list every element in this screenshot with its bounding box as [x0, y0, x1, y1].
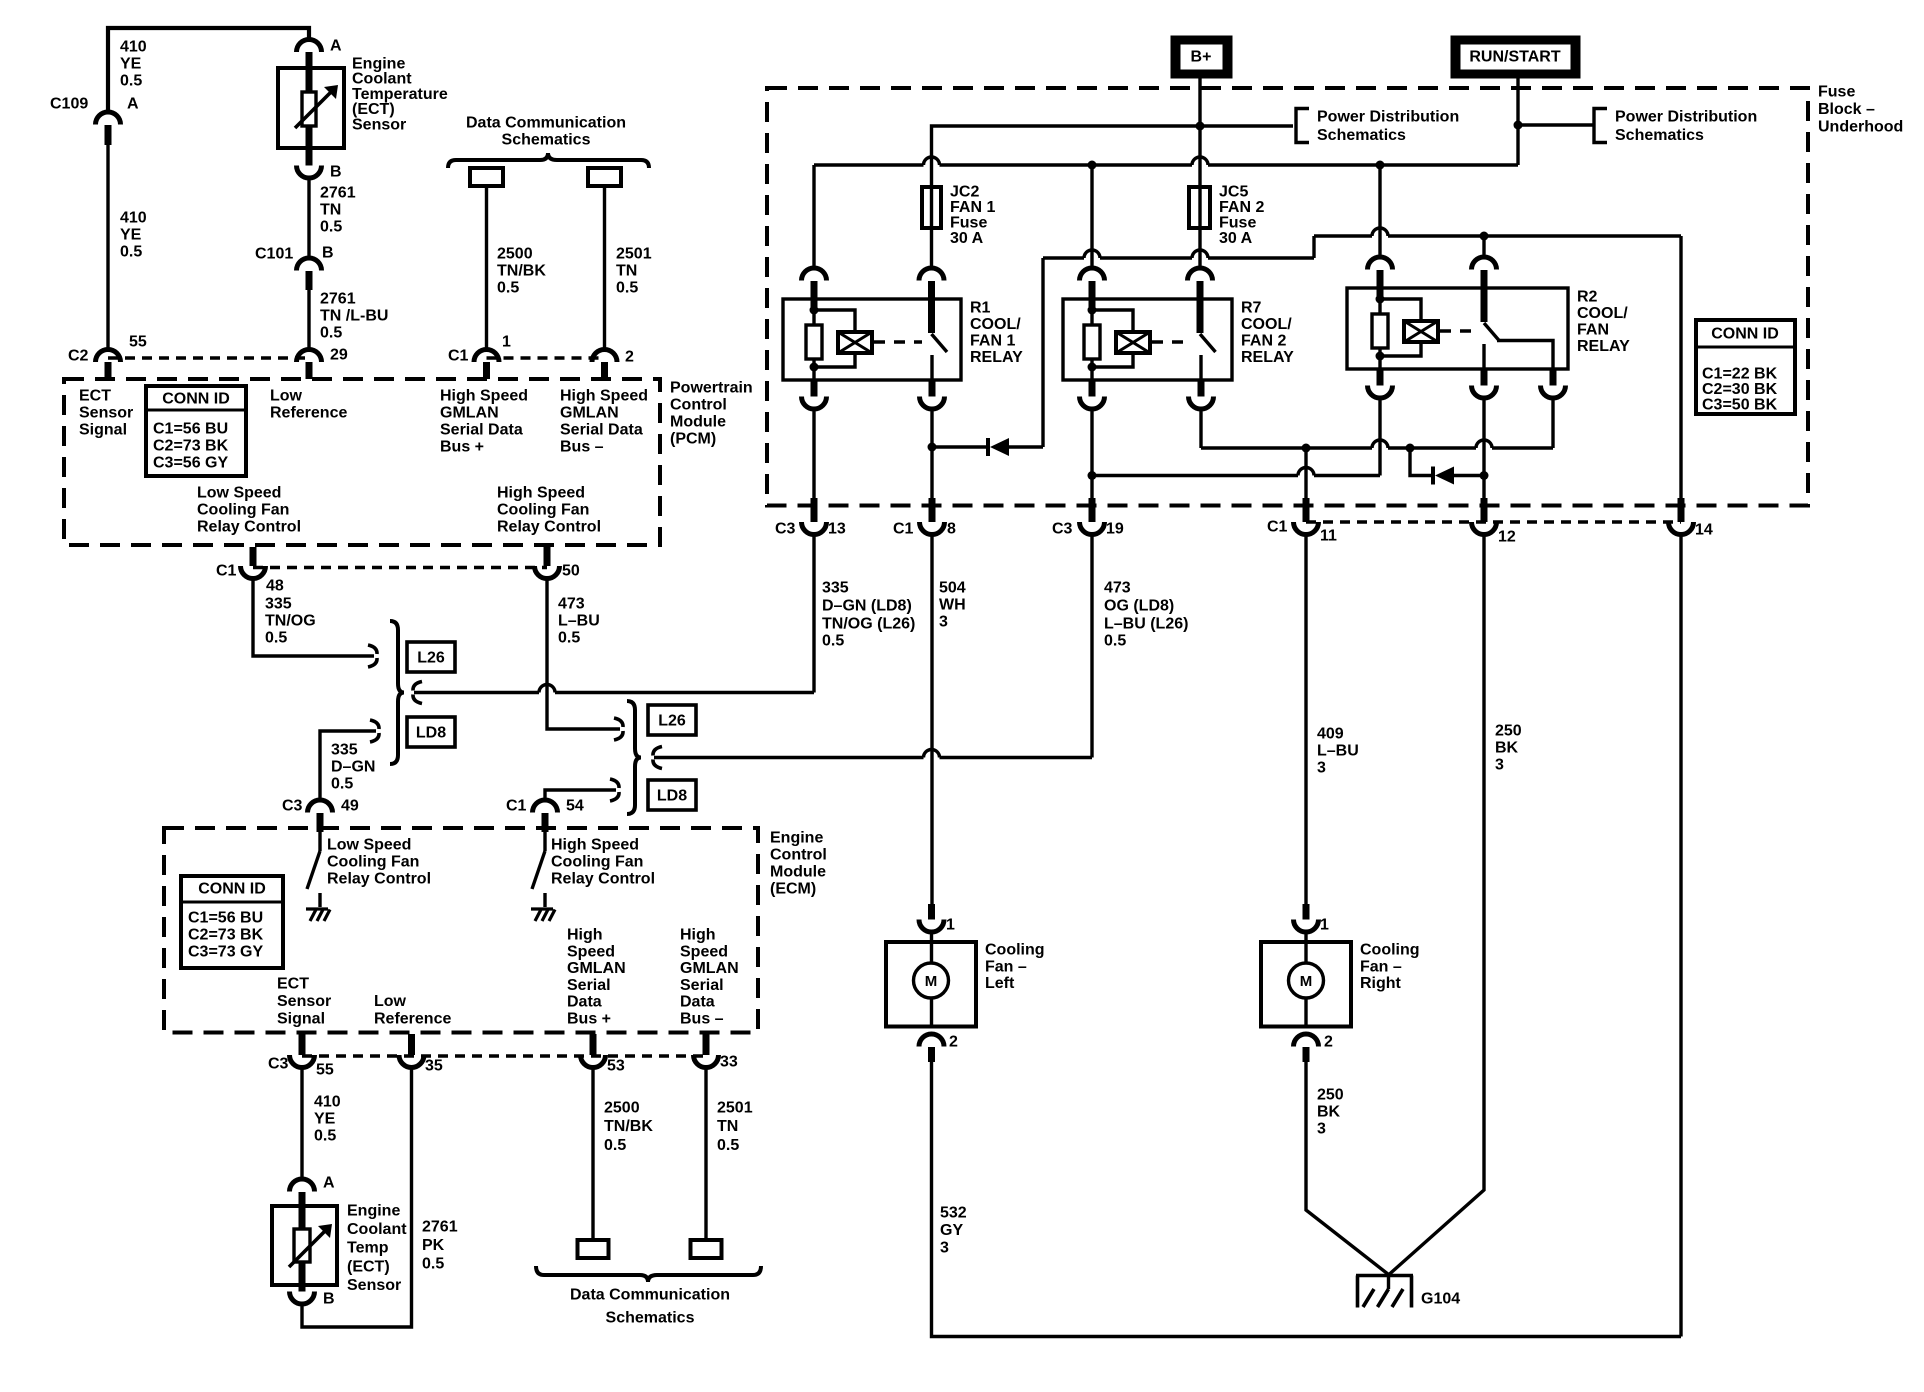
connector ECM pin 53	[590, 1034, 597, 1055]
wire: 2500 TN/BK serial data bus +	[485, 186, 488, 350]
svg-text:Bus +: Bus +	[567, 1011, 611, 1028]
svg-text:3: 3	[1317, 760, 1326, 777]
svg-text:30 A: 30 A	[950, 230, 984, 247]
wire: R7 coil feed drop	[1090, 165, 1093, 268]
svg-text:55: 55	[316, 1062, 334, 1079]
wire: 410 YE C109 to PCM C2-55	[106, 145, 109, 350]
CONN ID table (fuse block)	[1696, 320, 1795, 414]
svg-text:(ECM): (ECM)	[770, 881, 816, 898]
svg-text:C3=50 BK: C3=50 BK	[1702, 397, 1778, 414]
svg-text:19: 19	[1106, 521, 1124, 538]
svg-text:8: 8	[947, 521, 956, 538]
wire: cross wire drop to pin 14	[1679, 236, 1682, 498]
svg-text:Coolant: Coolant	[347, 1221, 407, 1238]
wire: R7 coil output to pin 19	[1090, 409, 1093, 498]
svg-text:High Speed: High Speed	[551, 837, 639, 854]
svg-text:410: 410	[120, 210, 147, 227]
svg-text:Reference: Reference	[374, 1011, 451, 1028]
svg-text:Powertrain: Powertrain	[670, 380, 753, 397]
svg-text:Signal: Signal	[79, 422, 127, 439]
connector PCM pin 50	[544, 547, 551, 566]
svg-text:FAN 1: FAN 1	[950, 199, 995, 216]
svg-text:Cooling: Cooling	[1360, 942, 1420, 959]
svg-text:2: 2	[1324, 1034, 1333, 1051]
svg-text:C3: C3	[1052, 521, 1073, 538]
harness connector line pins 1-2 (dotted)	[487, 356, 605, 360]
svg-text:0.5: 0.5	[320, 219, 342, 236]
splice L26 tag (left)	[407, 642, 455, 672]
node: pin 11 tap	[1302, 444, 1311, 453]
relay R2 switch throw to second output	[1497, 341, 1553, 370]
svg-text:Module: Module	[770, 864, 826, 881]
svg-text:0.5: 0.5	[616, 280, 638, 297]
connector: R7 coil output pin	[1090, 369, 1093, 380]
svg-text:11: 11	[1320, 528, 1337, 545]
wire: splice output to fuse block pin 13 (hops 473 wire)	[414, 691, 539, 694]
svg-text:B: B	[330, 164, 342, 181]
connector ECM pin 35	[408, 1034, 415, 1055]
svg-text:C3: C3	[282, 798, 303, 815]
svg-text:50: 50	[562, 563, 580, 580]
svg-text:TN: TN	[616, 263, 637, 280]
node: diode D2 tap	[1406, 444, 1415, 453]
svg-text:Speed: Speed	[567, 943, 615, 960]
svg-text:Fuse: Fuse	[1219, 215, 1256, 232]
svg-text:409: 409	[1317, 726, 1344, 743]
connector ECT sensor (upper) pin B	[297, 166, 322, 179]
svg-text:410: 410	[314, 1094, 341, 1111]
CONN ID table (PCM)	[146, 386, 246, 476]
svg-text:B: B	[323, 1291, 335, 1308]
svg-text:A: A	[323, 1175, 335, 1192]
svg-text:1: 1	[946, 917, 955, 934]
svg-text:JC5: JC5	[1219, 184, 1248, 201]
svg-text:C1: C1	[506, 798, 527, 815]
svg-text:Speed: Speed	[680, 943, 728, 960]
svg-text:504: 504	[939, 580, 966, 597]
svg-text:High Speed: High Speed	[440, 388, 528, 405]
svg-text:0.5: 0.5	[497, 280, 519, 297]
connector ECM C3 pin 55	[299, 1034, 306, 1055]
connector PCM C1 pin 48	[250, 547, 257, 566]
svg-text:RELAY: RELAY	[970, 349, 1023, 366]
svg-text:LD8: LD8	[416, 725, 446, 742]
connector: R7 switch feed pin	[1188, 268, 1213, 281]
relay R7 coil-switch dashed link	[1152, 340, 1191, 343]
svg-text:(PCM): (PCM)	[670, 431, 716, 448]
svg-text:3: 3	[939, 614, 948, 631]
svg-text:C1: C1	[216, 563, 237, 580]
relay R1 coil winding	[814, 310, 855, 332]
svg-text:Sensor: Sensor	[347, 1277, 401, 1294]
svg-text:3: 3	[940, 1240, 949, 1257]
svg-text:Serial: Serial	[567, 977, 611, 994]
connector: left fan pin 2	[919, 1034, 944, 1047]
svg-text:L26: L26	[417, 650, 445, 667]
wire: ignition bus down to R1 coil	[812, 165, 815, 268]
svg-text:14: 14	[1695, 522, 1713, 539]
connector: R1 switch feed pin	[919, 268, 944, 281]
svg-text:OG (LD8): OG (LD8)	[1104, 598, 1174, 615]
off-page terminal for circuit 2500	[470, 168, 503, 186]
svg-text:Low Speed: Low Speed	[197, 485, 281, 502]
fuse JC5 FAN 2 30 A	[1189, 187, 1210, 228]
svg-text:FAN 2: FAN 2	[1241, 333, 1286, 350]
svg-text:High: High	[680, 927, 716, 944]
svg-text:B+: B+	[1191, 49, 1212, 66]
svg-text:2501: 2501	[616, 246, 652, 263]
svg-text:2500: 2500	[604, 1100, 640, 1117]
wire: 409 L-BU pin 11 to right fan	[1304, 536, 1307, 905]
svg-text:33: 33	[720, 1054, 738, 1071]
svg-text:532: 532	[940, 1205, 967, 1222]
svg-text:335: 335	[331, 742, 358, 759]
svg-text:Fuse: Fuse	[1818, 84, 1855, 101]
svg-text:D–GN (LD8): D–GN (LD8)	[822, 598, 912, 615]
svg-text:Bus –: Bus –	[680, 1011, 724, 1028]
relay R1 COOL/FAN 1 box	[783, 299, 961, 380]
connector ECT sensor (lower) pin A	[290, 1179, 315, 1192]
harness connector line ECM pins (dotted)	[302, 1054, 706, 1058]
svg-text:2761: 2761	[422, 1219, 458, 1236]
svg-text:TN/OG (L26): TN/OG (L26)	[822, 616, 915, 633]
svg-text:PK: PK	[422, 1237, 445, 1254]
connector: R2 switch feed pin	[1472, 257, 1497, 270]
connector fuse block pin 14	[1678, 498, 1685, 522]
connector PCM C1 pin 1	[474, 350, 499, 363]
node: B+ tap on power bus	[1196, 122, 1205, 131]
svg-text:Relay Control: Relay Control	[327, 871, 431, 888]
svg-text:GMLAN: GMLAN	[560, 405, 619, 422]
svg-text:BK: BK	[1495, 740, 1519, 757]
svg-text:TN: TN	[320, 202, 341, 219]
svg-text:C3=73 GY: C3=73 GY	[188, 944, 263, 961]
splice L26 tag (right)	[648, 705, 696, 735]
wire: cross wire to R2 switch feed (hops R7 wires)	[1043, 256, 1084, 259]
node: diode D2 to pin 12 wire	[1480, 471, 1489, 480]
svg-text:D–GN: D–GN	[331, 759, 375, 776]
svg-text:Schematics: Schematics	[1615, 127, 1704, 144]
svg-text:Signal: Signal	[277, 1011, 325, 1028]
svg-text:A: A	[127, 96, 139, 113]
connector fuse block C1 pin 11	[1303, 498, 1310, 522]
svg-text:Fan –: Fan –	[985, 958, 1027, 975]
svg-text:Data: Data	[680, 994, 715, 1011]
svg-text:Schematics: Schematics	[606, 1310, 695, 1327]
svg-text:C2=73 BK: C2=73 BK	[188, 927, 264, 944]
splice LD8 tag (right)	[648, 780, 696, 810]
wire: RUN/START feed	[1516, 78, 1519, 165]
svg-text:TN /L-BU: TN /L-BU	[320, 308, 388, 325]
relay R2 switch blade	[1481, 288, 1488, 322]
svg-text:TN/BK: TN/BK	[604, 1118, 653, 1135]
module internal ground symbol (pin 54 driver)	[531, 909, 555, 921]
node: R2 coil feed junction	[1376, 161, 1385, 170]
connector PCM pin 29 (Low Reference)	[297, 350, 322, 363]
connector: R7 switch output pin	[1198, 380, 1205, 397]
svg-text:C3: C3	[775, 521, 796, 538]
svg-text:Fuse: Fuse	[950, 215, 987, 232]
svg-text:Cooling Fan: Cooling Fan	[197, 502, 289, 519]
thermistor element of ECT sensor (upper)	[302, 92, 316, 126]
svg-text:335: 335	[265, 596, 292, 613]
svg-text:0.5: 0.5	[1104, 633, 1126, 650]
svg-text:12: 12	[1498, 529, 1516, 546]
wire: 2500 TN/BK ECM 53 to data link	[591, 1068, 594, 1241]
ground G104 symbol	[1387, 1275, 1390, 1290]
svg-text:FAN 1: FAN 1	[970, 333, 1015, 350]
wire: power wire B+ bus (to JC2 and off-page)	[932, 126, 1294, 268]
connector: R2 coil feed pin	[1368, 257, 1393, 270]
svg-text:L26: L26	[658, 713, 686, 730]
relay R2 coil suppression resistor	[1377, 288, 1384, 296]
svg-text:BK: BK	[1317, 1104, 1341, 1121]
svg-text:GMLAN: GMLAN	[440, 405, 499, 422]
svg-text:C109: C109	[50, 96, 88, 113]
svg-text:Cooling: Cooling	[985, 942, 1045, 959]
thermistor element of ECT sensor (lower)	[294, 1229, 310, 1262]
connector fuse block C1 pin 8	[929, 498, 936, 522]
splice brace (left group)	[390, 621, 404, 764]
svg-text:COOL/: COOL/	[1241, 316, 1292, 333]
wire: R1 coil output to pin 13	[812, 409, 815, 498]
wire: ignition bus RUN/START to relay coils (hops fuse wires)	[814, 163, 924, 166]
svg-text:High: High	[567, 927, 603, 944]
splice brace (right group)	[627, 701, 641, 814]
module: Powertrain Control Module PCM (dashed box)	[64, 379, 660, 545]
svg-text:CONN ID: CONN ID	[198, 881, 266, 898]
relay R7 COOL/FAN 2 box	[1063, 299, 1232, 380]
svg-text:Engine: Engine	[347, 1203, 400, 1220]
svg-text:C1=56 BU: C1=56 BU	[153, 421, 228, 438]
power feed RUN/START box	[1451, 36, 1580, 78]
wire: pin 14 to bottom bus	[1679, 536, 1682, 1337]
off-page terminal for circuit 2501 (bottom)	[691, 1240, 722, 1258]
svg-text:Control: Control	[670, 397, 727, 414]
svg-text:R1: R1	[970, 300, 991, 317]
wire: R2 throw drop	[1551, 398, 1554, 448]
svg-text:Block –: Block –	[1818, 101, 1875, 118]
relay R7 switch blade	[1197, 299, 1204, 333]
connector PCM pin 2	[592, 350, 617, 363]
svg-text:Module: Module	[670, 414, 726, 431]
connector: R7 coil feed pin	[1080, 268, 1105, 281]
svg-text:C1=22 BK: C1=22 BK	[1702, 366, 1778, 383]
svg-text:13: 13	[828, 521, 846, 538]
svg-text:R2: R2	[1577, 289, 1598, 306]
svg-text:35: 35	[425, 1058, 443, 1075]
svg-text:Data: Data	[567, 994, 602, 1011]
connector PCM C2 pin 55	[96, 350, 121, 362]
connector C101 pin B	[297, 258, 322, 271]
svg-text:0.5: 0.5	[265, 630, 287, 647]
connector: right fan pin 2	[1294, 1034, 1319, 1047]
node: R7 coil feed junction	[1088, 161, 1097, 170]
svg-text:53: 53	[607, 1058, 625, 1075]
connector C109 pin A	[96, 112, 121, 124]
diode D1	[986, 438, 990, 456]
splice LD8 tag (left)	[407, 717, 455, 747]
wire: R2 coil output to R7 coil output (hops pin11 wire)	[1378, 398, 1381, 476]
svg-text:Relay Control: Relay Control	[497, 519, 601, 536]
svg-text:COOL/: COOL/	[970, 316, 1021, 333]
node: R2 switch feed tap	[1480, 232, 1489, 241]
wire: R1 switch output to pin 8	[930, 409, 933, 498]
module internal ground symbol (pin 49 driver)	[306, 909, 330, 921]
svg-text:FAN 2: FAN 2	[1219, 199, 1264, 216]
svg-text:2: 2	[949, 1034, 958, 1051]
wire: 2761 TN/L-BU C101 to PCM pin 29	[307, 290, 310, 350]
svg-text:0.5: 0.5	[331, 776, 353, 793]
svg-text:Cooling Fan: Cooling Fan	[497, 502, 589, 519]
wire: diode D1 riser to cross wire	[1041, 258, 1044, 447]
svg-text:C101: C101	[255, 246, 293, 263]
connector: R1 coil feed pin	[802, 268, 827, 281]
wire: 410 YE loop C109-A to ECT sensor A	[108, 28, 309, 112]
svg-text:C2=30 BK: C2=30 BK	[1702, 381, 1778, 398]
svg-text:L–BU: L–BU	[558, 613, 600, 630]
svg-text:C1=56 BU: C1=56 BU	[188, 910, 263, 927]
svg-text:RELAY: RELAY	[1241, 349, 1294, 366]
svg-text:C3=56 GY: C3=56 GY	[153, 455, 228, 472]
wire: 335 D-GN from ECM 49 to splice LD8	[320, 731, 376, 800]
svg-text:CONN ID: CONN ID	[1711, 326, 1779, 343]
svg-text:30 A: 30 A	[1219, 230, 1253, 247]
svg-text:C1: C1	[893, 521, 914, 538]
svg-text:0.5: 0.5	[822, 633, 844, 650]
svg-text:3: 3	[1317, 1121, 1326, 1138]
connector fuse block pin 12	[1481, 498, 1488, 522]
off-page brace (data communication, top)	[448, 153, 649, 168]
diode D2	[1431, 467, 1435, 485]
svg-text:0.5: 0.5	[314, 1128, 336, 1145]
harness connector line pins 11-12-14 (dotted)	[1306, 520, 1681, 524]
svg-text:55: 55	[129, 334, 147, 351]
wire: B+ feed down to fuse JC5	[1198, 78, 1201, 268]
wire: interconnect R7 switch to R2 throw (hops coil+NO wires)	[1201, 446, 1372, 449]
svg-text:R7: R7	[1241, 300, 1262, 317]
connector: left fan pin 1	[928, 904, 935, 920]
wire: 250 BK pin 12 toward G104	[1389, 536, 1484, 1275]
svg-text:ECT: ECT	[277, 976, 309, 993]
svg-text:Control: Control	[770, 847, 827, 864]
diode D1 line from fan1 output	[932, 445, 988, 448]
relay R2 coil winding	[1380, 299, 1421, 321]
connector ECT sensor (lower) pin B	[290, 1292, 315, 1305]
svg-text:Bus +: Bus +	[440, 439, 484, 456]
svg-text:Schematics: Schematics	[502, 132, 591, 149]
svg-text:2501: 2501	[717, 1100, 753, 1117]
engine coolant temperature sensor B1 (upper) body	[278, 68, 344, 148]
svg-text:JC2: JC2	[950, 184, 979, 201]
off-page bracket power distribution (right)	[1594, 109, 1607, 143]
svg-text:RUN/START: RUN/START	[1469, 49, 1560, 66]
svg-text:Right: Right	[1360, 975, 1402, 992]
svg-text:LD8: LD8	[657, 788, 687, 805]
motor: cooling fan left	[930, 932, 933, 963]
module: Fuse Block - Underhood (dashed box)	[767, 88, 1808, 506]
wire: 2761 PK sensor B loop to ECM pin 35	[302, 1068, 412, 1328]
svg-text:1: 1	[502, 334, 511, 351]
svg-text:M: M	[1300, 973, 1313, 990]
low-side driver switch for pin 54 (ECM)	[543, 832, 546, 851]
svg-text:Sensor: Sensor	[352, 116, 406, 133]
wire: 504 WH pin 8 to left fan (hops splice wire)	[930, 536, 933, 905]
svg-text:A: A	[330, 38, 342, 55]
svg-text:GMLAN: GMLAN	[680, 960, 739, 977]
svg-text:473: 473	[558, 596, 585, 613]
svg-text:0.5: 0.5	[120, 244, 142, 261]
off-page terminal for circuit 2501	[588, 168, 621, 186]
svg-text:Serial Data: Serial Data	[560, 422, 643, 439]
engine coolant temp sensor B1 (lower) body	[272, 1206, 337, 1285]
wire: pin 11 drop	[1304, 448, 1307, 498]
connector ECM C1 pin 54	[533, 800, 558, 813]
svg-text:Low Speed: Low Speed	[327, 837, 411, 854]
svg-text:B: B	[322, 245, 334, 262]
svg-text:YE: YE	[314, 1111, 336, 1128]
svg-text:WH: WH	[939, 597, 966, 614]
svg-text:0.5: 0.5	[320, 325, 342, 342]
svg-text:RELAY: RELAY	[1577, 338, 1630, 355]
svg-text:Serial Data: Serial Data	[440, 422, 523, 439]
relay R7 coil winding	[1092, 310, 1133, 332]
wire: RUN/START to off-page bracket	[1518, 123, 1594, 126]
svg-text:Low: Low	[374, 993, 407, 1010]
low-side driver switch for pin 49 (ECM)	[318, 832, 321, 851]
relay R2 normally-open contact	[1482, 344, 1485, 369]
svg-text:49: 49	[341, 798, 359, 815]
svg-text:29: 29	[330, 347, 348, 364]
power feed B+ box	[1171, 36, 1232, 78]
svg-text:Temp: Temp	[347, 1240, 389, 1257]
connector ECT sensor (upper) pin A	[297, 40, 322, 53]
svg-text:Relay Control: Relay Control	[551, 871, 655, 888]
svg-text:Data Communication: Data Communication	[570, 1287, 730, 1304]
relay R2 COOL/FAN box	[1347, 288, 1568, 369]
wire: R2 switch feed drop	[1482, 236, 1485, 257]
relay R1 switch blade	[928, 299, 935, 333]
svg-text:YE: YE	[120, 56, 142, 73]
svg-text:Sensor: Sensor	[79, 405, 133, 422]
svg-text:473: 473	[1104, 580, 1131, 597]
svg-text:Schematics: Schematics	[1317, 127, 1406, 144]
svg-text:2761: 2761	[320, 185, 356, 202]
svg-text:Underhood: Underhood	[1818, 119, 1903, 136]
wire: 335 TN/OG from PCM 48 to splice L26	[253, 579, 374, 656]
wire: 2501 TN ECM 33 to data link	[704, 1068, 707, 1241]
wire: R7 switch output to interconnect	[1199, 409, 1202, 448]
svg-text:2500: 2500	[497, 246, 533, 263]
svg-text:COOL/: COOL/	[1577, 305, 1628, 322]
svg-text:High Speed: High Speed	[560, 388, 648, 405]
svg-text:250: 250	[1317, 1087, 1344, 1104]
connector: right fan pin 1	[1303, 904, 1310, 920]
svg-text:3: 3	[1495, 757, 1504, 774]
CONN ID table (ECM)	[181, 876, 283, 968]
svg-text:YE: YE	[120, 227, 142, 244]
svg-text:GY: GY	[940, 1222, 963, 1239]
node: R7/R2 coil output junction	[1088, 471, 1097, 480]
svg-text:0.5: 0.5	[422, 1256, 444, 1273]
wire: 2501 TN serial data bus -	[603, 186, 606, 350]
connector ECM pin 33	[703, 1034, 710, 1055]
relay R7 coil suppression resistor	[1089, 299, 1096, 307]
svg-text:1: 1	[1320, 917, 1329, 934]
wire: 473 L-BU from PCM 50 to splice L26 (right)	[547, 579, 620, 729]
svg-text:Left: Left	[985, 975, 1015, 992]
svg-text:TN/BK: TN/BK	[497, 263, 546, 280]
